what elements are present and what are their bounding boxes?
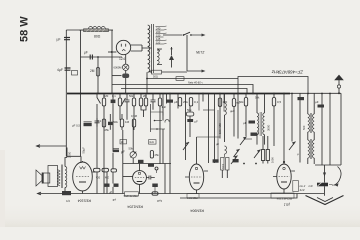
svg-text:µF: µF	[174, 100, 178, 104]
svg-text:REN1204: REN1204	[127, 205, 143, 209]
junction dot tube input	[111, 51, 113, 53]
fuse box on y78.5	[176, 77, 184, 81]
svg-text:100×150: 100×150	[218, 123, 222, 134]
switch diagonals band	[240, 137, 247, 146]
IF1 winding B	[263, 113, 265, 135]
component x208 y160	[213, 159, 219, 162]
svg-text:1µF: 1µF	[162, 105, 167, 109]
svg-text:µF: µF	[112, 198, 116, 202]
wire main bus right y93	[290, 92, 341, 94]
grid resistor x157 y193	[152, 192, 158, 195]
switch diagonal x234	[231, 156, 238, 165]
wire y110	[203, 109, 214, 111]
wire vertical x147 transformer down	[146, 72, 148, 93]
small box x123 y141.5	[120, 140, 127, 144]
svg-text:50µF: 50µF	[82, 147, 86, 154]
resistor cluster right of output tube	[94, 168, 101, 172]
wire x224	[223, 94, 225, 112]
wire output transformer top to bus	[65, 148, 67, 167]
svg-text:3000: 3000	[223, 163, 225, 169]
svg-text:240: 240	[156, 27, 161, 31]
dial lamp	[114, 64, 129, 70]
svg-text:25k: 25k	[155, 153, 160, 157]
IF1 core	[260, 112, 261, 136]
contact circle x156.5 y168.5	[155, 167, 158, 170]
resistor x234	[233, 94, 235, 99]
boxed connector	[293, 181, 299, 192]
wire x292	[291, 94, 293, 142]
svg-text:80Ω: 80Ω	[94, 35, 101, 39]
wires cluster	[97, 104, 123, 194]
junction dot x283 y162	[283, 161, 285, 163]
svg-text:µF: µF	[216, 142, 220, 146]
svg-text:25k: 25k	[104, 176, 109, 180]
svg-text:NETZ: NETZ	[196, 51, 205, 55]
svg-text:2M: 2M	[90, 69, 95, 73]
wire x238 drop	[237, 94, 239, 139]
IF2 winding A	[308, 114, 310, 132]
label tube V5 boxed	[271, 193, 294, 200]
dark cap x235.5 y160	[233, 159, 239, 162]
svg-text:RENS1264: RENS1264	[123, 194, 137, 198]
cap x127	[125, 94, 130, 120]
svg-text:µF: µF	[57, 37, 61, 41]
resistor x274	[273, 94, 275, 98]
tube V3 REN1204	[123, 164, 147, 194]
IF1 winding A	[257, 113, 259, 135]
svg-text:0,5: 0,5	[277, 100, 282, 104]
svg-text:6060M: 6060M	[114, 66, 122, 70]
resistor x191 y102	[189, 98, 192, 107]
svg-text:µ0,1: µ0,1	[284, 203, 290, 207]
caps pair x153	[151, 94, 156, 110]
wire speaker top lead	[37, 145, 67, 147]
wire mains tap line y35	[163, 34, 182, 36]
IF2 lower winding A	[308, 140, 310, 158]
svg-text:µF: µF	[109, 191, 112, 195]
wire x112 to ballast	[112, 75, 122, 77]
wire y138.5	[244, 138, 252, 140]
wire x163 down	[162, 94, 164, 164]
wire x218	[217, 110, 219, 160]
wire x170	[169, 94, 171, 194]
wire transformer bottom lead y72	[150, 70, 152, 72]
boxed label on bottom line under V4	[187, 194, 199, 198]
resistor pair x263/x267	[262, 150, 265, 161]
IF2 lower winding B	[313, 140, 315, 158]
wire mains vertical x187	[186, 35, 188, 71]
output transformer windings	[61, 165, 66, 189]
wire output transformer bottom	[64, 188, 66, 194]
junction dots y163.5	[243, 163, 245, 165]
wire top-left frame horizontal	[66, 29, 113, 31]
cap x97 row2	[95, 118, 100, 127]
capacitor on x67 y69	[57, 68, 71, 72]
cap x150 y178	[146, 176, 154, 180]
svg-text:50k: 50k	[255, 96, 260, 100]
resistor mains dropper top	[79, 27, 113, 39]
band switch contact stack	[150, 104, 152, 132]
dark cap x155 y185	[152, 184, 158, 188]
cap x113	[112, 94, 114, 152]
wire mains long line y78.5	[147, 78, 238, 80]
resistor x134	[133, 94, 135, 99]
dark caps below cluster	[105, 184, 110, 187]
wire x214	[214, 94, 216, 164]
wire x178	[177, 94, 179, 109]
svg-text:µF: µF	[84, 51, 88, 55]
svg-text:mF: mF	[309, 184, 313, 188]
wire bus upper2 y88.5	[121, 89, 247, 94]
svg-text:110: 110	[156, 41, 161, 45]
svg-text:50k: 50k	[187, 108, 192, 112]
misc tiny labels row1	[98, 94, 300, 156]
svg-text:50k: 50k	[95, 176, 100, 180]
resistor x120	[119, 94, 121, 99]
resistor vertical x98 y72	[90, 68, 100, 77]
fuse triangle voltage selector	[157, 47, 174, 68]
wire fuse to mains	[162, 71, 188, 73]
wire x220	[219, 94, 221, 139]
wire x185	[185, 94, 187, 161]
svg-text:1M: 1M	[125, 120, 130, 124]
component x152 y165	[148, 164, 154, 167]
svg-text:58 W: 58 W	[19, 16, 31, 42]
transformer T1 primary winding	[148, 25, 150, 72]
wire y137	[197, 136, 221, 138]
resistor x152 y154	[150, 151, 153, 159]
svg-text:µF: µF	[195, 120, 199, 124]
dark cap x110 row2	[108, 122, 113, 125]
wire rect top right y76	[238, 77, 308, 94]
wire bottom second y198	[180, 194, 297, 199]
svg-text:1M0: 1M0	[103, 94, 109, 98]
resistor x246	[245, 94, 247, 98]
mains switch	[183, 34, 185, 36]
volume pot circle	[129, 120, 137, 163]
svg-text:3000: 3000	[267, 124, 271, 131]
wire heater taps	[157, 49, 162, 65]
oscillator coil x228	[218, 94, 226, 143]
wire tube right bracket	[131, 45, 152, 51]
transformer core	[152, 24, 154, 73]
IF2 winding B	[313, 114, 315, 132]
transformer tap box with voltage taps	[156, 26, 167, 45]
wire cap to ground	[324, 186, 326, 196]
rectifier tube V1	[116, 40, 130, 61]
wire y163	[123, 163, 171, 165]
double resistor x141/x146	[141, 94, 146, 99]
svg-text:1µ0: 1µ0	[157, 199, 162, 203]
svg-text:0,5: 0,5	[66, 199, 70, 203]
wire arrow down x324.5	[324, 165, 326, 183]
switch arrow x237 y152	[234, 149, 240, 157]
IF2 lower core	[310, 139, 311, 159]
wire x199	[198, 94, 200, 111]
svg-text:4V: 4V	[157, 49, 161, 53]
resistor x190 y114 horizontal	[186, 112, 194, 116]
transformer heater winding	[157, 49, 159, 64]
IF coil x228 y150	[221, 146, 229, 178]
fuse box y72	[152, 70, 162, 74]
wire bottom main y193.5	[38, 193, 325, 195]
resistor x180 y102	[178, 98, 181, 107]
speaker	[36, 166, 60, 187]
resistor on bottom line x132	[125, 192, 139, 196]
wire left frame vertical	[65, 30, 67, 156]
ballast resistor under lamp	[122, 74, 129, 79]
ground symbol	[306, 196, 344, 205]
switch diagonal x123 row1	[122, 98, 126, 105]
wire x166.5 down	[166, 94, 168, 104]
junction dot y57 x98	[97, 56, 99, 58]
wire x203	[202, 94, 204, 102]
capacitor ground blocking	[317, 183, 328, 187]
wire x160	[159, 114, 161, 164]
svg-text:Netz 40-60∿: Netz 40-60∿	[188, 80, 204, 84]
resistor x122 row2	[120, 119, 123, 127]
electrolytic on bottom line x66	[62, 191, 71, 195]
svg-text:RES164: RES164	[78, 199, 91, 203]
resistor x160	[159, 94, 161, 99]
wires IF2	[308, 94, 314, 165]
cap block x190 y120	[187, 119, 193, 122]
wire vertical x98	[97, 57, 99, 94]
svg-text:REN904: REN904	[186, 196, 197, 200]
svg-text:150: 150	[156, 34, 161, 38]
svg-text:1000: 1000	[271, 157, 275, 163]
wire bus upper y84.3	[112, 85, 253, 94]
resistor block x301 y99	[298, 97, 305, 100]
svg-text:413: 413	[300, 188, 305, 192]
resistor x134 row2	[132, 119, 135, 127]
svg-text:4µF: 4µF	[57, 68, 63, 72]
wire y169.5 right	[340, 93, 342, 165]
capacitor on y57 line	[90, 55, 92, 60]
svg-text:µF 0,5: µF 0,5	[72, 123, 80, 127]
svg-text:ZF=468/473kHz: ZF=468/473kHz	[271, 70, 304, 75]
wave trap curve	[335, 167, 342, 186]
capacitor C block on x67 y38.5	[57, 37, 71, 41]
wire x330	[329, 94, 331, 166]
wires IF1 leads	[257, 94, 265, 145]
svg-text:500: 500	[302, 125, 306, 130]
capacitor block IF1 bottom	[251, 133, 258, 136]
svg-text:25k: 25k	[105, 128, 110, 132]
switch diagonal x186 y145	[183, 142, 189, 150]
electrolytic x116 y150	[113, 149, 125, 155]
wire lamp to ballast	[125, 71, 127, 74]
output tube V2 RES164	[73, 161, 96, 194]
svg-text:50Ω: 50Ω	[153, 75, 158, 79]
svg-text:1kΩ: 1kΩ	[149, 141, 154, 144]
row2 left: electrolytic x86	[85, 119, 87, 121]
svg-text:125: 125	[156, 37, 161, 41]
resistor x104 row2	[102, 119, 105, 127]
mains arrow 2	[187, 70, 204, 72]
svg-text:220: 220	[156, 30, 161, 34]
svg-text:µF: µF	[315, 100, 319, 104]
cap block x321 y106	[318, 105, 325, 108]
svg-text:50k: 50k	[239, 100, 244, 104]
IF2 core	[310, 113, 311, 133]
svg-text:0,1: 0,1	[194, 100, 199, 104]
wire x207	[208, 94, 210, 164]
wire x300	[299, 94, 301, 163]
dark cap x140.7 y161	[138, 160, 144, 163]
wire horizontal y57	[81, 56, 123, 58]
svg-text:REN904: REN904	[190, 209, 204, 213]
svg-text:2000: 2000	[68, 151, 72, 158]
wire tube left lead	[108, 51, 116, 53]
svg-text:25k: 25k	[183, 100, 188, 104]
wire y165 right	[315, 164, 341, 166]
resistor vertical x104	[103, 94, 105, 99]
mains arrow 1	[192, 34, 204, 36]
wire main bus y93.5	[67, 93, 290, 95]
wire ballast down to bus	[125, 78, 127, 94]
svg-text:RENS1204: RENS1204	[276, 196, 292, 200]
wire vertical x80	[80, 30, 82, 156]
svg-text:1Z4: 1Z4	[119, 57, 125, 61]
cap x170 y101	[166, 100, 173, 103]
wire y164 right	[299, 163, 301, 165]
svg-text:0,5M: 0,5M	[131, 114, 138, 118]
antenna symbol	[334, 75, 344, 94]
junction dots on bus	[96, 78, 340, 95]
resistor box x75 y73	[72, 71, 78, 76]
svg-text:50k: 50k	[129, 94, 134, 98]
svg-text:0,1: 0,1	[112, 94, 116, 98]
small box x152 y141.8	[149, 140, 157, 144]
svg-text:µF: µF	[243, 121, 247, 125]
switch diagonal x97	[97, 94, 101, 105]
wire x165	[164, 164, 166, 194]
wire vertical x112	[111, 30, 113, 94]
wire x67 lower segment jog	[66, 156, 81, 163]
cap block x252 y122	[249, 121, 256, 124]
svg-text:50k: 50k	[129, 147, 134, 151]
svg-text:0,1: 0,1	[98, 119, 102, 123]
resistor x220	[218, 98, 221, 107]
svg-text:50k: 50k	[113, 120, 118, 124]
wire x322	[321, 94, 323, 166]
wire x283	[283, 94, 285, 163]
wire lamp top to tube	[125, 55, 127, 65]
